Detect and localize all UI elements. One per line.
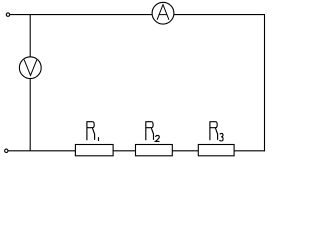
wire voltmeter to bottom wire <box>29 78 31 150</box>
wire right edge <box>264 14 266 151</box>
label R2 subscript 2 <box>155 135 159 141</box>
terminal (bottom-left input) <box>5 149 8 152</box>
wire R1 to R2 <box>113 150 135 152</box>
label R3 <box>210 121 218 140</box>
label R3 subscript 3 <box>219 133 223 141</box>
label R2 <box>146 121 154 140</box>
wire R2 to R3 <box>172 150 198 152</box>
label R1 <box>87 121 95 140</box>
ammeter letter A <box>157 5 169 20</box>
wire top-left to ammeter <box>10 14 152 16</box>
voltmeter letter V <box>24 60 36 75</box>
ammeter U1 circle <box>152 2 174 24</box>
terminal (top-left input) <box>6 13 9 16</box>
wire bottom-left terminal to R1 <box>8 150 75 152</box>
wire R3 to bottom-right corner <box>234 150 265 152</box>
label R1 subscript 1 <box>98 137 100 141</box>
resistor R2 box <box>136 145 173 156</box>
wire ammeter to top-right corner <box>174 14 265 16</box>
wire branch from top wire down to voltmeter <box>29 15 31 57</box>
resistor R1 box <box>75 145 113 156</box>
voltmeter U2 circle <box>19 57 41 79</box>
resistor R3 box <box>198 145 234 156</box>
